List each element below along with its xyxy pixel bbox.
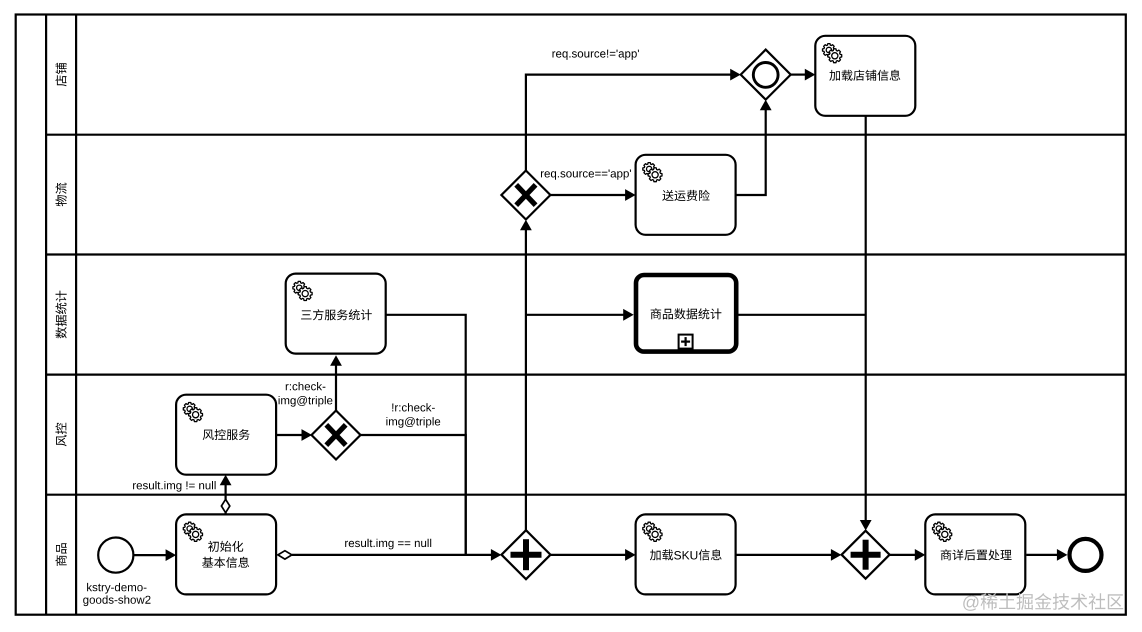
wire 初始化基本信息→并行网关1 (conditional) (278, 549, 502, 561)
gateway parallel + (商品左) (502, 530, 551, 579)
task 初始化基本信息 (176, 514, 276, 594)
lane label 数据统计 (55, 291, 66, 339)
task 送运费险 (636, 155, 736, 235)
task 商详后置处理 (925, 514, 1025, 594)
watermark @稀土掘金技术社区 (963, 593, 1123, 611)
wire 并行网关1→X网关(物流) (520, 220, 532, 531)
wire X网关→三方服务统计 (330, 355, 342, 410)
gateway exclusive X (风控) (312, 411, 361, 460)
gateway parallel + (商品右) (842, 531, 890, 579)
wire 并行网关1分支→商品数据统计 (526, 309, 634, 321)
lane divider 3 (46, 374, 1126, 376)
wire 商详后置处理→end (1026, 549, 1067, 561)
wire 并行网关1→加载SKU信息 (551, 549, 636, 561)
task 加载店铺信息 (815, 36, 915, 116)
label req.source=='app' (541, 170, 631, 180)
label req.source!='app' (553, 50, 639, 60)
task 风控服务 (176, 395, 276, 475)
wire 加载SKU信息→并行网关2 (736, 549, 841, 561)
label kstry-demo-goods-show2 (83, 583, 150, 606)
label result.img == null (345, 539, 431, 550)
wire 送运费险→OR网关 (736, 100, 771, 195)
start event kstry-demo-goods-show2 (98, 538, 133, 573)
wire 商品数据统计→并行网关2竖线 (738, 314, 865, 316)
subprocess 商品数据统计 (636, 275, 736, 352)
lane label 风控 (55, 423, 66, 447)
lane divider 1 (46, 134, 1126, 136)
wire X网关→并行网关1 (经x=465.7) (361, 435, 466, 555)
task 加载SKU信息 (636, 514, 736, 594)
wire 初始化基本信息→风控服务 (conditional) (220, 475, 232, 515)
gateway inclusive OR (店铺) (741, 50, 791, 100)
lane label 店铺 (56, 63, 67, 86)
wire 三方服务统计→并行网关1 (经x=465.7) (386, 315, 466, 555)
lane label band divider (75, 15, 77, 615)
lane label 商品 (55, 543, 66, 566)
wire OR网关→加载店铺信息 (791, 69, 816, 81)
end event (1070, 539, 1102, 571)
wire X网关(物流)→OR网关 (526, 69, 741, 171)
wire start→初始化基本信息 (133, 549, 177, 561)
wire 加载店铺信息→并行网关2 (860, 116, 872, 531)
label r:check-img@triple (279, 382, 333, 407)
wire 风控服务→X网关 (277, 429, 312, 441)
task 三方服务统计 (286, 274, 386, 354)
gateway exclusive X (物流) (501, 171, 550, 220)
lane divider 2 (46, 253, 1126, 255)
label !r:check-img@triple (386, 403, 440, 428)
pool label band divider (45, 15, 47, 615)
wire 并行网关2→商详后置处理 (890, 549, 926, 561)
lane label 物流 (56, 183, 67, 207)
lane divider 4 (46, 494, 1126, 496)
label result.img != null (133, 481, 216, 492)
wire X网关(物流)→送运费险 (550, 189, 635, 201)
